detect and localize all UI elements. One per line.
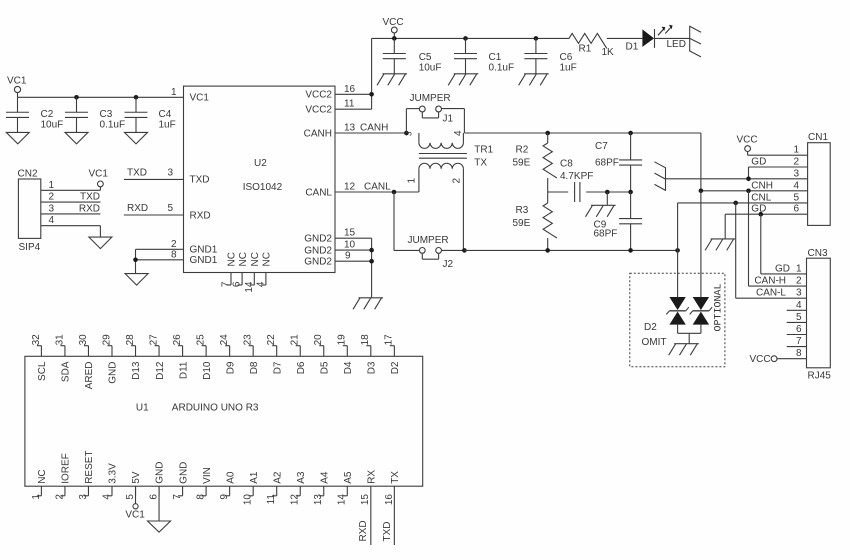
svg-text:CNH: CNH <box>751 180 773 191</box>
junction GND2 pin9 <box>369 259 374 264</box>
svg-text:C8: C8 <box>560 159 573 170</box>
svg-text:5: 5 <box>793 192 799 203</box>
U1 top pin 29 (GND) <box>101 334 118 384</box>
svg-text:3: 3 <box>167 168 173 179</box>
svg-text:5: 5 <box>796 312 802 323</box>
svg-text:GND1: GND1 <box>190 255 218 266</box>
svg-text:CNL: CNL <box>751 192 771 203</box>
svg-text:20: 20 <box>313 334 324 346</box>
CN1 pin 2 wire net GD <box>749 157 808 179</box>
ground (C3) <box>65 132 88 144</box>
svg-text:2: 2 <box>54 494 65 500</box>
svg-text:C3: C3 <box>100 109 113 120</box>
capacitor C2 10uF <box>6 97 63 132</box>
svg-text:LED: LED <box>667 39 686 50</box>
svg-text:10uF: 10uF <box>41 120 64 131</box>
svg-text:13: 13 <box>344 122 356 133</box>
svg-text:NC: NC <box>238 252 249 266</box>
svg-text:RESET: RESET <box>84 450 95 483</box>
svg-text:GND: GND <box>108 362 119 384</box>
svg-text:30: 30 <box>78 334 89 346</box>
junction C8 ground node <box>605 190 610 195</box>
junction C7/C9 midpoint <box>628 190 633 195</box>
node VC1 (U1 pin 5) <box>125 486 145 520</box>
svg-text:D4: D4 <box>343 361 354 374</box>
svg-text:6: 6 <box>148 494 159 500</box>
U1 top pin 31 (SDA) <box>54 334 71 382</box>
wire CAN-H link <box>748 191 750 286</box>
connector CN3 RJ45 <box>807 248 832 382</box>
svg-text:ISO1042: ISO1042 <box>243 182 283 193</box>
svg-text:OMIT: OMIT <box>642 337 667 348</box>
svg-text:4.7KPF: 4.7KPF <box>560 171 593 182</box>
junction CANL <box>392 190 397 195</box>
svg-text:C4: C4 <box>159 109 172 120</box>
U1 top pin 22 (D7) <box>266 334 283 374</box>
U1 top pin 17 (D2) <box>384 334 401 374</box>
svg-text:TR1: TR1 <box>474 145 493 156</box>
junction C1 <box>463 36 468 41</box>
svg-text:A3: A3 <box>296 471 307 484</box>
svg-text:8: 8 <box>796 348 802 359</box>
svg-text:8: 8 <box>196 494 207 500</box>
wire U2 VCC2 pins to VCC rail <box>335 38 372 109</box>
svg-text:C2: C2 <box>41 109 54 120</box>
resistor R1 1K <box>569 33 614 58</box>
svg-text:TXD: TXD <box>190 175 210 186</box>
svg-text:1: 1 <box>48 180 54 191</box>
CN3 pin 6 stub <box>787 324 807 335</box>
U1 top pin 26 (D11) <box>172 334 189 379</box>
ground (U1 pin 6) <box>148 486 171 532</box>
ground (C2) <box>6 132 29 144</box>
junction J2 / transformer pin 2 <box>462 248 467 253</box>
transformer TR1 core <box>419 154 467 159</box>
svg-text:VCC: VCC <box>737 134 758 145</box>
off-page connector (LED return) <box>690 26 701 57</box>
node VC1 (CN2) <box>89 169 109 187</box>
ground (C8 node) <box>586 205 616 217</box>
svg-text:3: 3 <box>405 131 414 136</box>
svg-text:6: 6 <box>232 281 243 287</box>
svg-text:12: 12 <box>290 494 301 506</box>
svg-text:R1: R1 <box>579 44 592 55</box>
svg-text:22: 22 <box>266 334 277 346</box>
svg-text:VCC2: VCC2 <box>305 105 332 116</box>
ground (GND2) <box>353 298 383 310</box>
junction CNH <box>699 189 704 194</box>
U1 top pin 18 (D3) <box>360 334 377 374</box>
node VCC (CN3 pin 8) <box>750 348 807 365</box>
capacitor C4 1uF <box>125 97 176 132</box>
svg-text:14: 14 <box>244 281 255 293</box>
svg-text:31: 31 <box>54 334 65 346</box>
svg-text:RXD: RXD <box>79 203 100 214</box>
U1 bottom pin 4 (3.3V) <box>101 463 118 500</box>
svg-text:CANL: CANL <box>364 181 391 192</box>
svg-text:VCC: VCC <box>750 354 771 365</box>
junction C9 bottom <box>628 248 633 253</box>
ground (C4) <box>125 132 148 144</box>
CN1 pin 4 wire net CNH <box>701 180 808 191</box>
U2 right pin labels <box>304 90 333 268</box>
svg-text:3: 3 <box>796 288 802 299</box>
svg-text:CAN-H: CAN-H <box>754 276 786 287</box>
svg-text:GND: GND <box>178 462 189 484</box>
wire VC1 rail to U2 pin 1 <box>18 96 184 98</box>
svg-text:5V: 5V <box>131 471 142 484</box>
wire CANL down to jumper J2 <box>394 192 419 250</box>
wire U2 CANL to transformer pin 1 <box>335 181 419 192</box>
svg-text:D11: D11 <box>178 361 189 379</box>
U1 bottom pin 9 (A0) <box>219 471 236 499</box>
svg-text:3.3V: 3.3V <box>108 463 119 484</box>
TVS diode D2 (left element) <box>666 297 688 333</box>
svg-text:J2: J2 <box>443 259 454 270</box>
svg-text:10: 10 <box>243 494 254 506</box>
svg-text:17: 17 <box>384 334 395 346</box>
svg-text:14: 14 <box>337 494 348 506</box>
wire U2 GND1 pins to ground <box>136 239 184 274</box>
U1 bottom pin 6 (GND) <box>148 462 165 500</box>
svg-text:0.1uF: 0.1uF <box>489 63 515 74</box>
svg-text:32: 32 <box>31 334 42 346</box>
U1 bottom pin 14 (A5) <box>337 471 354 505</box>
svg-text:1: 1 <box>31 494 42 500</box>
U1 bottom pin 3 (RESET) <box>78 450 95 499</box>
junction CNL to CN3 <box>733 201 738 206</box>
svg-text:25: 25 <box>196 334 207 346</box>
svg-text:4: 4 <box>48 215 54 226</box>
junction at C3 <box>74 95 79 100</box>
svg-text:18: 18 <box>360 334 371 346</box>
svg-text:1: 1 <box>793 145 799 156</box>
svg-text:TX: TX <box>390 471 401 484</box>
ground (CN1 pin 3, chassis left) <box>655 162 666 191</box>
CN1 pin 6 wire net GD <box>725 204 807 239</box>
wire termination midpoint <box>548 191 631 193</box>
U1 top pin 32 (SCL) <box>31 334 48 381</box>
capacitor C9 68PF <box>594 192 643 250</box>
jumper J1 <box>406 93 464 133</box>
capacitor C5 10uF <box>383 38 442 73</box>
ground (CN1 pin 6) <box>705 239 735 251</box>
svg-text:OPTIONAL: OPTIONAL <box>714 283 725 331</box>
capacitor C3 0.1uF <box>65 97 125 132</box>
junction pins 2-3 <box>746 177 751 182</box>
junction CANH <box>404 131 409 136</box>
svg-text:CAN-L: CAN-L <box>756 288 786 299</box>
svg-text:ARED: ARED <box>84 362 95 390</box>
wire CANH rail to CN1 branch <box>464 133 701 191</box>
CN1 pin 5 wire net CNL <box>678 192 808 250</box>
transformer TR1 label <box>474 145 493 169</box>
svg-text:U1: U1 <box>136 403 149 414</box>
capacitor C8 4.7KPF <box>560 159 593 202</box>
svg-text:1K: 1K <box>602 47 615 58</box>
svg-text:VC1: VC1 <box>7 76 27 87</box>
CN3 pin 1 wire net GD <box>761 263 807 274</box>
net label TXD (U1 pin 16) <box>382 522 393 542</box>
svg-text:A4: A4 <box>319 471 330 484</box>
svg-text:4: 4 <box>453 130 464 136</box>
ground (C6) <box>519 74 549 86</box>
svg-text:CN2: CN2 <box>18 169 38 180</box>
U1 top pin 25 (D10) <box>196 334 213 380</box>
U1 bottom pin 2 (IOREF) <box>54 453 71 499</box>
U1 bottom pin 11 (A2) <box>266 471 283 504</box>
ground (C5) <box>377 74 407 86</box>
node VCC (CN1) <box>737 134 758 155</box>
CN3 pin 7 stub <box>787 336 807 347</box>
svg-text:12: 12 <box>344 181 356 192</box>
svg-text:CANL: CANL <box>305 187 332 198</box>
junction R3 bottom <box>545 248 550 253</box>
svg-text:10: 10 <box>344 240 356 251</box>
wire VCC rail <box>372 37 643 39</box>
svg-text:CN3: CN3 <box>808 248 828 259</box>
svg-text:19: 19 <box>337 334 348 346</box>
svg-text:C6: C6 <box>560 52 573 63</box>
svg-text:C7: C7 <box>595 141 608 152</box>
svg-text:RX: RX <box>367 470 378 484</box>
svg-text:3: 3 <box>78 494 89 500</box>
CN3 pin 5 stub <box>787 312 807 323</box>
U1 bottom pin 7 (GND) <box>172 462 189 500</box>
junction CNH to CN3 <box>746 189 751 194</box>
capacitor C7 68PF <box>595 133 642 192</box>
svg-text:16: 16 <box>384 494 395 506</box>
svg-text:D10: D10 <box>202 361 213 380</box>
U1 bottom pin 1 (NC) <box>31 469 48 499</box>
svg-text:VC1: VC1 <box>125 510 145 521</box>
junction at C4 <box>134 95 139 100</box>
svg-text:R2: R2 <box>516 145 529 156</box>
junction GD to CN3 <box>759 212 764 217</box>
svg-text:5: 5 <box>125 494 136 500</box>
CN3 pin 3 wire net CAN-L <box>736 288 807 299</box>
svg-text:2: 2 <box>793 157 799 168</box>
svg-text:A5: A5 <box>343 471 354 484</box>
wire CANL into D2 <box>677 250 679 297</box>
wire net RXD to U2 pin 5 <box>124 203 184 215</box>
svg-text:11: 11 <box>266 494 277 505</box>
svg-text:D8: D8 <box>249 361 260 374</box>
svg-text:21: 21 <box>290 334 301 346</box>
svg-text:2: 2 <box>796 276 802 287</box>
svg-text:2: 2 <box>451 178 462 184</box>
svg-text:D2: D2 <box>390 361 401 374</box>
U1 top pin 30 (ARED) <box>78 334 95 389</box>
wire CNH into D2 <box>700 191 702 297</box>
wire net TXD to U2 pin 3 <box>124 168 184 180</box>
svg-text:1: 1 <box>406 178 417 184</box>
svg-text:GND: GND <box>155 462 166 484</box>
svg-text:D13: D13 <box>131 361 142 380</box>
svg-text:A1: A1 <box>249 471 260 484</box>
U1 bottom pin 13 (A4) <box>313 471 330 505</box>
wire CANL rail <box>464 249 677 251</box>
svg-text:VC1: VC1 <box>190 93 210 104</box>
svg-text:C1: C1 <box>489 52 502 63</box>
CN3 pin 4 stub <box>787 300 807 311</box>
wire CAN-L link <box>735 203 737 298</box>
ground (C1) <box>448 74 478 86</box>
svg-text:0.1uF: 0.1uF <box>100 120 126 131</box>
wire D2 common <box>678 333 701 343</box>
ground (GND1) <box>125 274 148 286</box>
svg-text:D3: D3 <box>367 361 378 374</box>
U1 top pin 20 (D5) <box>313 334 330 374</box>
svg-text:SDA: SDA <box>61 361 72 382</box>
svg-text:7: 7 <box>172 494 183 500</box>
svg-text:7: 7 <box>796 336 802 347</box>
svg-text:SCL: SCL <box>37 361 48 381</box>
svg-text:8: 8 <box>171 249 177 260</box>
U1 top pin 24 (D9) <box>219 334 236 374</box>
svg-text:4: 4 <box>796 300 802 311</box>
svg-text:16: 16 <box>344 84 356 95</box>
TVS diode D2 (right element) <box>690 297 712 333</box>
svg-text:24: 24 <box>219 334 230 346</box>
junction CANL / D2 branch <box>675 248 680 253</box>
svg-text:CANH: CANH <box>360 122 388 133</box>
capacitor C6 1uF <box>524 38 576 73</box>
LED D1 <box>626 29 690 53</box>
svg-text:D1: D1 <box>626 42 639 53</box>
svg-text:15: 15 <box>344 228 356 239</box>
svg-text:68PF: 68PF <box>594 228 618 239</box>
svg-text:VCC: VCC <box>383 17 404 28</box>
svg-text:VCC2: VCC2 <box>305 90 332 101</box>
D2 label <box>642 322 667 348</box>
svg-text:IOREF: IOREF <box>61 453 72 484</box>
svg-text:VIN: VIN <box>202 467 213 484</box>
svg-text:D7: D7 <box>272 361 283 374</box>
svg-text:68PF: 68PF <box>595 157 619 168</box>
CN3 pin 2 wire net CAN-H <box>749 276 807 287</box>
svg-text:NC: NC <box>262 252 273 266</box>
svg-text:23: 23 <box>243 334 254 346</box>
svg-text:RXD: RXD <box>127 203 148 214</box>
wire U2 CANH to jumper <box>335 122 406 133</box>
svg-text:A2: A2 <box>272 471 283 484</box>
U1 bottom pin 16 (TX) <box>384 471 401 545</box>
svg-text:5: 5 <box>167 203 173 214</box>
svg-text:D9: D9 <box>225 361 236 374</box>
svg-text:4: 4 <box>793 180 799 191</box>
U2 left pin labels <box>190 93 218 266</box>
svg-text:RXD: RXD <box>190 210 211 221</box>
svg-text:CANH: CANH <box>304 128 332 139</box>
svg-text:3: 3 <box>48 203 54 214</box>
svg-text:11: 11 <box>344 99 355 110</box>
wire U2 GND2 pins to ground <box>335 228 372 298</box>
U1 bottom pin 12 (A3) <box>290 471 307 505</box>
svg-text:NC: NC <box>227 252 238 266</box>
CN1 pin 3 wire to chassis ground <box>666 168 808 179</box>
svg-text:9: 9 <box>345 251 351 262</box>
junction GND2 pin10 <box>369 248 374 253</box>
transformer TR1 primary winding (pins 3,4) <box>405 130 464 148</box>
svg-text:JUMPER: JUMPER <box>408 235 449 246</box>
svg-text:TXD: TXD <box>80 192 100 203</box>
svg-text:1: 1 <box>171 87 177 98</box>
svg-text:1: 1 <box>796 263 802 274</box>
svg-text:GD: GD <box>751 204 766 215</box>
svg-text:D6: D6 <box>296 361 307 374</box>
U2 NC pins (7,6,14,4) <box>221 252 273 293</box>
svg-text:JUMPER: JUMPER <box>410 93 451 104</box>
svg-text:NC: NC <box>37 469 48 483</box>
svg-text:6: 6 <box>796 324 802 335</box>
svg-text:CN1: CN1 <box>808 132 828 143</box>
U1 bottom pin 5 (5V) <box>125 471 142 499</box>
svg-text:VC1: VC1 <box>89 169 109 180</box>
junction VCC2 <box>369 92 374 97</box>
junction VCC <box>392 36 397 41</box>
node VC1 (top-left supply terminal) <box>7 76 27 98</box>
junction C7 top <box>628 131 633 136</box>
svg-text:10uF: 10uF <box>419 63 442 74</box>
node VCC (top) <box>383 17 404 38</box>
svg-text:NC: NC <box>250 252 261 266</box>
wire GD link <box>760 214 762 274</box>
CN2 pin 2 wire net TXD <box>41 192 101 203</box>
svg-text:R3: R3 <box>516 205 529 216</box>
ground (D2) <box>669 344 699 356</box>
CN1 pin 1 wire <box>748 145 808 156</box>
svg-text:RJ45: RJ45 <box>808 371 832 382</box>
svg-text:A0: A0 <box>225 471 236 484</box>
svg-text:GND1: GND1 <box>190 245 218 256</box>
junction GND1 <box>133 258 138 263</box>
svg-text:TXD: TXD <box>382 522 393 542</box>
svg-text:9: 9 <box>219 494 230 500</box>
optional box (dotted) <box>630 273 725 366</box>
svg-text:13: 13 <box>313 494 324 506</box>
CN2 pin 4 wire to ground <box>41 215 101 237</box>
svg-text:3: 3 <box>793 168 799 179</box>
svg-text:GND2: GND2 <box>304 245 332 256</box>
U1 top pin 21 (D6) <box>290 334 307 374</box>
connector CN1 <box>808 132 831 225</box>
svg-text:27: 27 <box>148 334 159 346</box>
svg-text:29: 29 <box>101 334 112 346</box>
svg-text:1uF: 1uF <box>560 63 577 74</box>
svg-text:D5: D5 <box>319 361 330 374</box>
svg-text:D2: D2 <box>644 322 657 333</box>
svg-text:2: 2 <box>48 192 54 203</box>
svg-text:ARDUINO UNO R3: ARDUINO UNO R3 <box>172 403 259 414</box>
svg-text:U2: U2 <box>254 158 267 169</box>
wire to ground (C8 node) <box>606 192 608 205</box>
svg-text:SIP4: SIP4 <box>19 242 41 253</box>
LED light arrows <box>658 25 673 36</box>
transformer TR1 secondary winding (pins 1,2) <box>406 163 463 250</box>
svg-text:4: 4 <box>101 494 112 500</box>
svg-text:C5: C5 <box>419 52 432 63</box>
svg-text:15: 15 <box>360 494 371 506</box>
U1 bottom pin 15 (RX) <box>360 470 377 545</box>
junction R2 top <box>545 131 550 136</box>
svg-text:1uF: 1uF <box>159 120 176 131</box>
svg-text:GND2: GND2 <box>304 234 332 245</box>
capacitor C1 0.1uF <box>454 38 514 73</box>
U1 top pin 23 (D8) <box>243 334 260 374</box>
net label RXD (U1 pin 15) <box>358 520 369 541</box>
jumper J2 <box>408 235 465 270</box>
